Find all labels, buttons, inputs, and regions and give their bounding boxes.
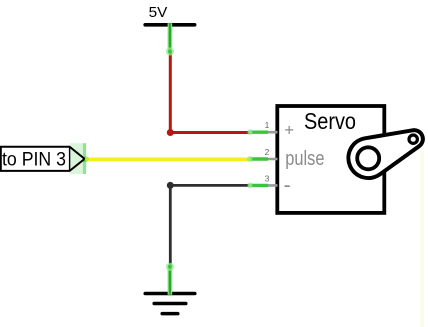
svg-text:-: - — [284, 174, 291, 197]
svg-text:3: 3 — [265, 174, 270, 184]
svg-text:1: 1 — [265, 120, 270, 130]
svg-text:5V: 5V — [149, 4, 168, 21]
svg-text:pulse: pulse — [285, 148, 324, 170]
svg-text:to PIN 3: to PIN 3 — [2, 148, 66, 170]
svg-text:+: + — [284, 122, 294, 140]
svg-text:Servo: Servo — [304, 108, 356, 134]
svg-text:2: 2 — [265, 147, 270, 157]
